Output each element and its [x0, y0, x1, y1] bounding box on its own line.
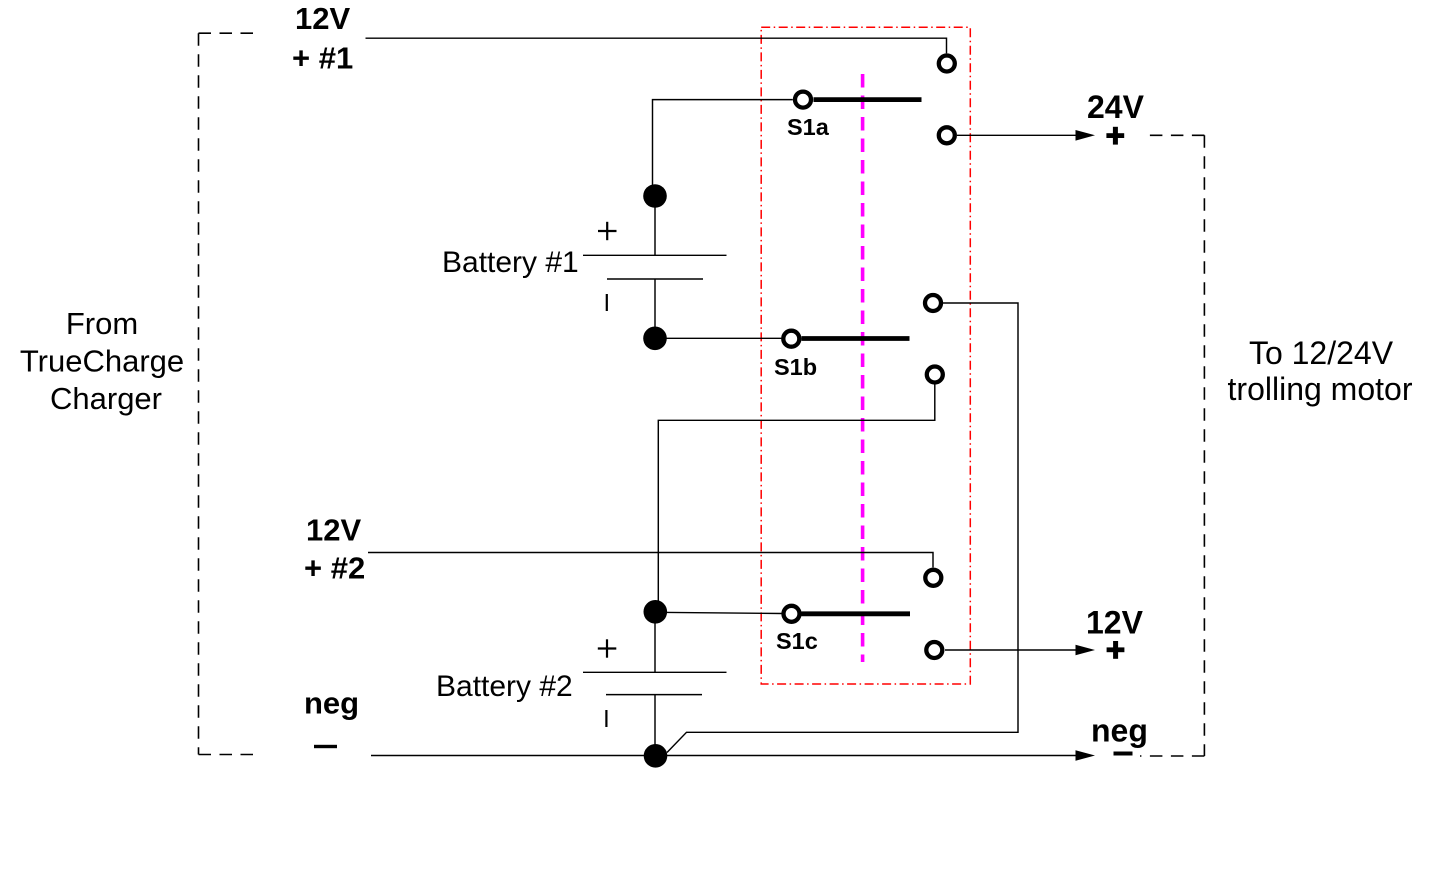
svg-text:TrueCharge: TrueCharge — [20, 344, 184, 379]
battery B2 plus mark — [598, 639, 617, 657]
switch S1a arm — [814, 97, 922, 102]
wire S1b upper throw to negative bus — [667, 303, 1018, 753]
svg-text:S1a: S1a — [787, 114, 830, 140]
svg-text:12V: 12V — [306, 513, 361, 548]
minus mark neg output — [1114, 752, 1133, 756]
motor-side dashed boundary bracket — [1140, 135, 1204, 756]
junction battery #1 negative — [643, 327, 667, 351]
svg-text:From: From — [66, 306, 138, 341]
plus mark 24V output — [1106, 127, 1124, 145]
wire 12V +#2 from charger to S1c upper throw — [368, 553, 933, 568]
battery B2 — [583, 612, 727, 756]
arrowhead 12V output — [1076, 645, 1096, 656]
svg-text:+ #2: + #2 — [304, 551, 365, 586]
plus mark 12V output — [1107, 641, 1125, 659]
arrowhead 24V output — [1076, 130, 1096, 141]
node S1c upper throw terminal — [925, 570, 941, 586]
svg-text:24V: 24V — [1087, 89, 1145, 125]
switch S1b arm — [802, 336, 910, 341]
label From TrueCharge Charger — [20, 306, 184, 416]
svg-text:12V: 12V — [1086, 605, 1144, 641]
wire 24V output — [957, 134, 1080, 136]
svg-text:S1c: S1c — [776, 628, 818, 654]
wire S1b lower throw to battery #2 positive — [658, 385, 935, 605]
svg-text:12V: 12V — [295, 1, 350, 36]
junction battery #1 positive — [643, 184, 667, 208]
minus mark neg input — [314, 745, 337, 748]
wire 12V +#1 from charger to S1a throw — [366, 38, 947, 53]
switch S1b pole terminal — [783, 331, 799, 347]
wire negative bus to outputs — [371, 755, 1080, 757]
svg-text:neg: neg — [304, 686, 359, 721]
label To 12/24V trolling motor — [1228, 335, 1413, 407]
svg-text:S1b: S1b — [774, 354, 817, 380]
switch S1 enclosure (red dash-dot box) — [761, 27, 970, 684]
charger-side dashed boundary bracket — [199, 33, 262, 754]
label 12V +#2 input — [304, 513, 365, 586]
svg-text:Battery #2: Battery #2 — [436, 670, 573, 703]
node S1c lower throw terminal (12V output) — [926, 642, 942, 658]
battery B1 — [583, 196, 727, 338]
switch S1c pole terminal — [784, 606, 800, 622]
wire 12V output — [945, 649, 1080, 651]
svg-text:Charger: Charger — [50, 381, 162, 416]
svg-text:trolling motor: trolling motor — [1228, 371, 1413, 407]
wire battery #1 positive to S1a pole — [653, 100, 793, 196]
arrowhead neg output — [1076, 750, 1096, 761]
battery B1 plus mark — [598, 222, 617, 240]
battery B2 minus mark — [605, 710, 607, 727]
svg-text:+ #1: + #1 — [292, 41, 353, 76]
wire battery #1 negative to S1b pole — [655, 337, 782, 339]
switch S1 gang link (magenta dashed line) — [861, 74, 865, 662]
node S1b lower throw terminal — [927, 367, 943, 383]
wire battery #2 positive to S1c pole — [655, 612, 781, 613]
node S1a upper throw terminal — [939, 56, 955, 72]
node S1b upper throw terminal — [925, 295, 941, 311]
node S1a lower throw terminal (24V output) — [939, 127, 955, 143]
switch S1a pole terminal — [795, 92, 811, 108]
junction battery #2 negative (neg bus) — [644, 744, 668, 768]
svg-text:To 12/24V: To 12/24V — [1249, 335, 1394, 371]
battery B1 minus mark — [606, 294, 608, 311]
svg-text:neg: neg — [1091, 713, 1148, 749]
label 12V +#1 input — [292, 1, 353, 76]
switch S1c arm — [802, 611, 911, 616]
svg-text:Battery #1: Battery #1 — [442, 246, 579, 279]
junction battery #2 positive — [644, 600, 668, 624]
